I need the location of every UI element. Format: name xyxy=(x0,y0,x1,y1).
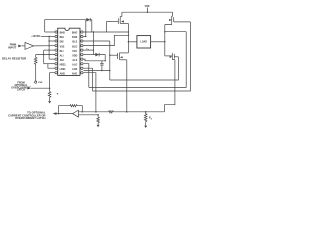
wire gate jog from IC xyxy=(106,22,108,33)
node sense xyxy=(145,111,147,113)
svg-text:AHS: AHS xyxy=(72,68,77,71)
svg-text:BHO: BHO xyxy=(72,32,77,35)
wire bus2 xyxy=(43,50,45,64)
wire pin R7 jog xyxy=(84,59,106,61)
svg-text:BLS: BLS xyxy=(72,41,77,44)
svg-text:AHI: AHI xyxy=(60,59,64,62)
comparator U3 xyxy=(73,110,79,117)
pins left xyxy=(55,31,58,74)
wire PWM to buffer xyxy=(22,45,25,47)
svg-text:LDEL: LDEL xyxy=(60,68,67,71)
svg-text:LOAD: LOAD xyxy=(140,41,147,44)
wire pin R9 xyxy=(84,68,93,91)
wire CB leads xyxy=(101,61,103,71)
wire LOAD left xyxy=(128,41,137,43)
node minus xyxy=(97,114,99,116)
svg-text:HDEL: HDEL xyxy=(60,63,67,66)
terminal VSS circle xyxy=(35,81,37,83)
wire pin R5 xyxy=(84,49,94,51)
wire bottom rail xyxy=(78,111,164,113)
svg-text:VCC: VCC xyxy=(72,50,77,53)
svg-text:BHB: BHB xyxy=(60,32,65,35)
node DIS xyxy=(49,87,51,89)
svg-text:BLO: BLO xyxy=(72,45,77,48)
label PWM INPUT xyxy=(8,43,17,50)
wire D1 cathode staircase xyxy=(90,19,92,21)
svg-text:DELAY RESISTOR: DELAY RESISTOR xyxy=(2,56,26,60)
wire BLO vertical xyxy=(109,41,111,80)
capacitor CB xyxy=(100,63,103,65)
node LOAD right xyxy=(164,41,166,43)
node tie row1 xyxy=(85,31,86,32)
wire buffer output to pin L4 xyxy=(34,45,55,47)
arrow DIS xyxy=(27,87,31,90)
diode D1 xyxy=(86,18,90,22)
wire pin L1 xyxy=(45,31,55,33)
svg-text:OVERCURRENT LATCH: OVERCURRENT LATCH xyxy=(15,116,45,120)
node LOAD left xyxy=(128,41,130,43)
wire D1 cathode drop xyxy=(91,20,93,32)
wire QAL source xyxy=(126,60,128,112)
resistor Rminus xyxy=(97,115,100,125)
wire pin R3 xyxy=(84,40,110,42)
wire comp - input xyxy=(78,114,98,116)
wire pin L6 / RDEL top xyxy=(36,54,55,56)
ground sense arrow xyxy=(144,126,147,128)
svg-text:ALS: ALS xyxy=(72,59,77,62)
svg-text:DIS: DIS xyxy=(60,41,64,44)
diode D3 xyxy=(95,53,99,57)
node AHS xyxy=(128,31,130,33)
wire phase A xyxy=(127,24,129,53)
op-amp U2 buffer xyxy=(25,42,34,49)
arrow comp output xyxy=(53,112,57,115)
node BLO xyxy=(109,70,110,71)
node QAL source join xyxy=(126,111,128,113)
wire BHS tap xyxy=(165,31,186,33)
wire tie rail to R2 xyxy=(85,20,87,37)
junction dots input bus xyxy=(48,36,49,37)
svg-text:BHS: BHS xyxy=(72,36,77,39)
resistor RDIS xyxy=(48,92,51,102)
transistor Q2 upper-right xyxy=(165,12,191,24)
svg-text:ALO: ALO xyxy=(72,63,77,66)
svg-text:AHO: AHO xyxy=(72,72,77,75)
transistor Q1 upper-left xyxy=(107,12,129,24)
wire pin L5 xyxy=(44,49,55,51)
svg-text:VDD: VDD xyxy=(72,54,77,57)
arrow PWM input xyxy=(18,45,22,48)
wire pin L2 xyxy=(41,36,55,38)
wire BLO rail xyxy=(110,57,179,80)
wire pin L7 xyxy=(49,58,55,60)
wire BHS return rail xyxy=(89,32,186,88)
wire feedback xyxy=(59,106,83,114)
wire BHO rail xyxy=(93,22,191,91)
wire CB bottom xyxy=(84,70,110,72)
transistor Q4 lower-right xyxy=(165,53,179,60)
node fb out xyxy=(58,113,60,115)
wire jog pin L9 xyxy=(48,64,55,68)
svg-text:F: F xyxy=(88,49,89,51)
node bootstrap row1 xyxy=(93,31,94,32)
svg-text:BHI: BHI xyxy=(60,36,64,39)
wire phase B xyxy=(164,25,166,56)
label TO OPTIONAL xyxy=(8,110,46,120)
IC pin labels xyxy=(60,32,78,76)
svg-text:ALI: ALI xyxy=(60,54,64,57)
transistor Q3 lower-left xyxy=(109,53,128,60)
wire pin R8 xyxy=(84,64,89,88)
svg-text:VSS: VSS xyxy=(38,82,43,84)
resistor feedback xyxy=(70,105,78,107)
wire comp output xyxy=(56,113,72,115)
node CB bottom xyxy=(101,70,102,71)
wire pin L8 xyxy=(44,63,55,65)
label FROM OPTIONAL xyxy=(11,82,31,92)
svg-text:AHB: AHB xyxy=(60,72,65,75)
wire pin L3 xyxy=(49,40,55,42)
node R10 join xyxy=(95,111,97,113)
svg-text:BLI: BLI xyxy=(60,50,64,53)
wire pin R4 AHS xyxy=(84,35,129,45)
IC U1 body xyxy=(58,28,80,75)
wire pin R6 xyxy=(84,54,94,56)
resistor RDEL xyxy=(34,55,37,81)
node BHS xyxy=(164,31,166,33)
svg-text:LATCH: LATCH xyxy=(17,89,25,92)
svg-text:+12VDC: +12VDC xyxy=(31,35,40,38)
node CB top xyxy=(105,60,106,61)
svg-text:INPUT: INPUT xyxy=(8,46,16,50)
wire bootstrap vertical xyxy=(92,32,94,55)
resistor Rsense xyxy=(144,112,147,126)
ground Rminus arrow xyxy=(97,125,100,127)
wire LOAD right xyxy=(151,41,165,43)
node tie row2 xyxy=(85,36,86,37)
wire pin R2 xyxy=(84,36,86,38)
box LOAD xyxy=(137,36,151,48)
wire VDD rail xyxy=(122,11,173,13)
node bootstrap row5 xyxy=(93,49,94,50)
wire input bus xyxy=(48,37,50,60)
wire top-left rail xyxy=(45,20,87,32)
wire DIS in xyxy=(31,87,50,89)
wire pin R1 long xyxy=(84,31,129,33)
node VDD xyxy=(147,11,149,13)
ground RDIS arrow xyxy=(48,101,51,103)
node fb in xyxy=(82,111,84,113)
svg-text:VSS: VSS xyxy=(60,45,65,48)
pins right xyxy=(81,31,83,74)
wire D3 leads xyxy=(93,55,105,61)
wire VDD tick xyxy=(146,8,148,13)
node phase A jog xyxy=(128,35,130,37)
wire QBL source xyxy=(165,60,175,112)
wire DIS vertical xyxy=(50,73,55,92)
wire pin R10 xyxy=(84,73,96,112)
resistor Rlimit xyxy=(109,111,114,113)
